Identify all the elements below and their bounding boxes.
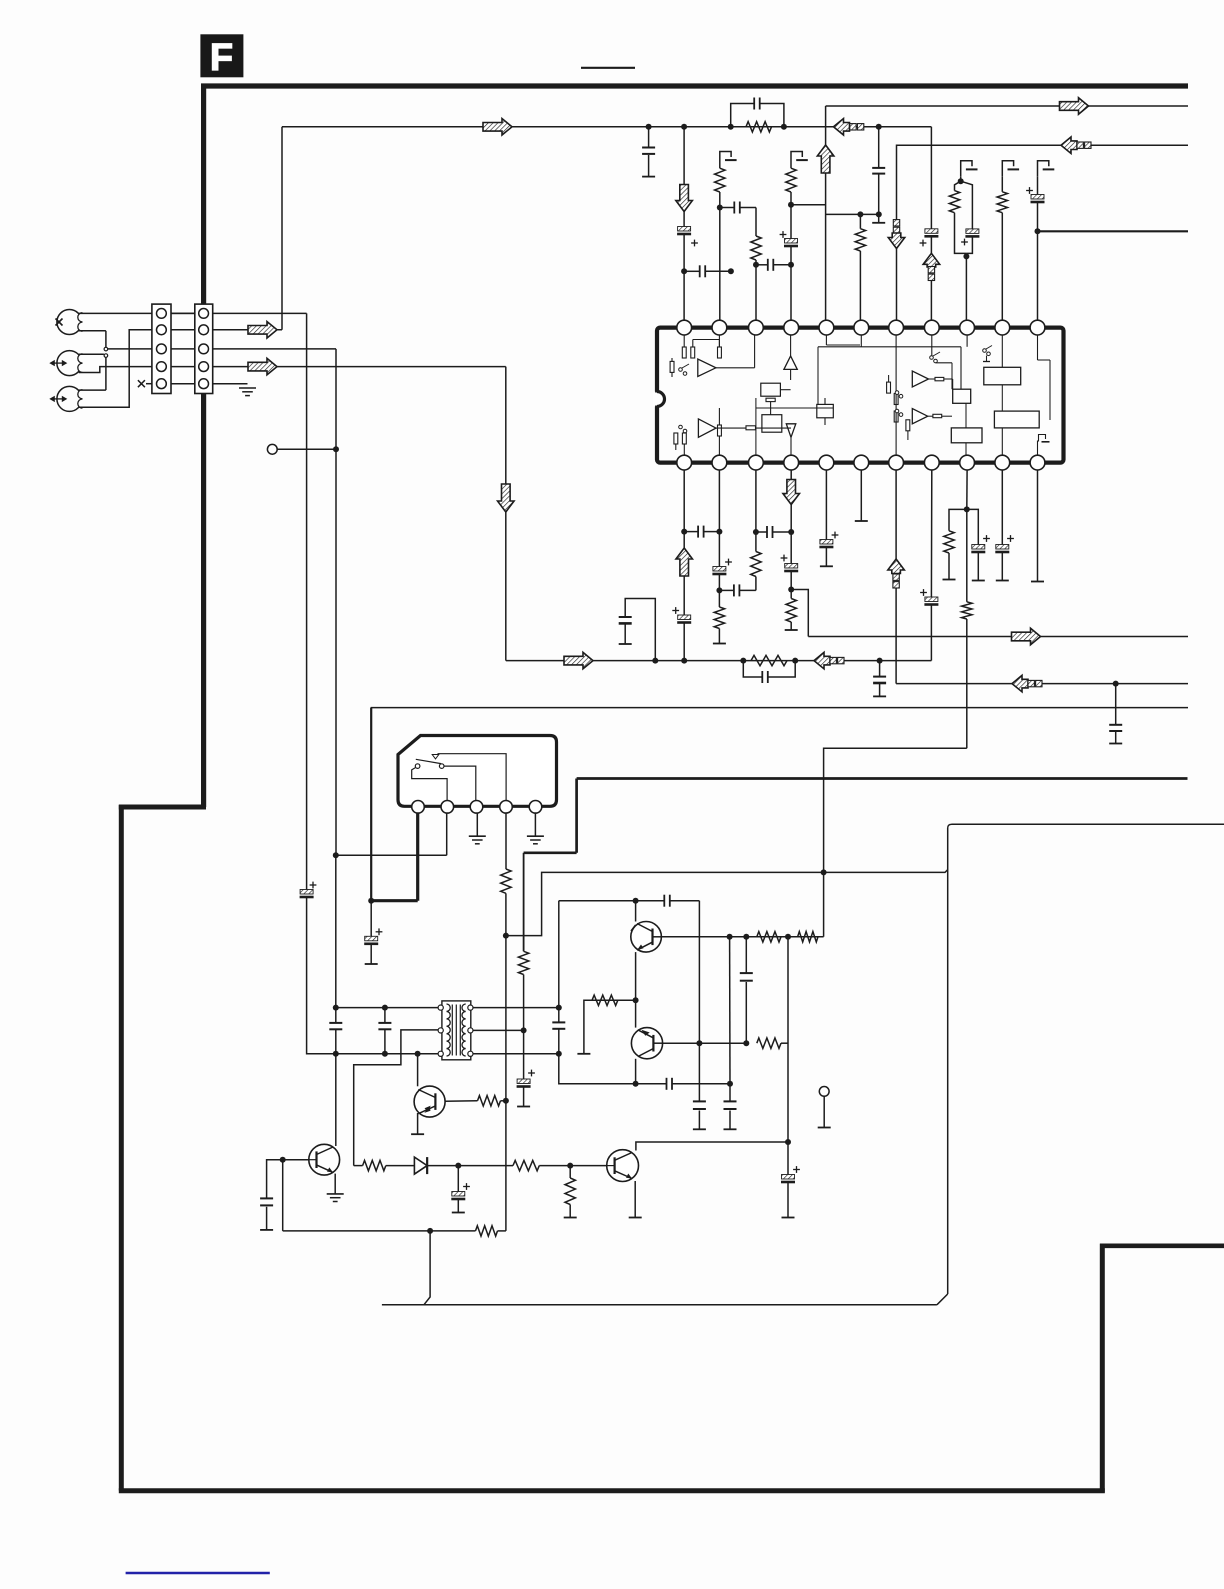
svg-text:F: F bbox=[210, 37, 233, 79]
